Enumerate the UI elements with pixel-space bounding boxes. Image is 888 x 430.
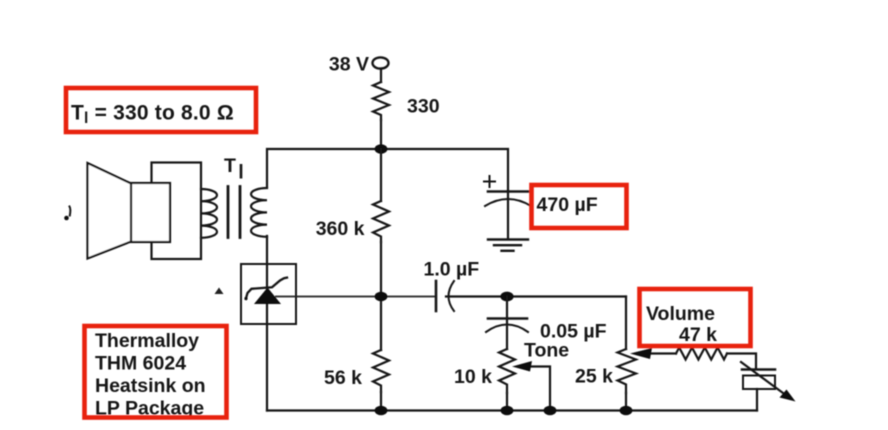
node junction bottom 4 <box>620 406 633 416</box>
wire 25k to bottom <box>625 393 627 411</box>
thyristor device triangle <box>254 288 281 305</box>
svg-text:38 V: 38 V <box>329 54 369 76</box>
svg-text:1.0 µF: 1.0 µF <box>424 259 480 281</box>
svg-text:47 k: 47 k <box>679 324 717 346</box>
wire cartridge to bottom <box>756 389 758 411</box>
svg-text:Tone: Tone <box>524 340 569 362</box>
node anode mark <box>215 288 224 295</box>
callout box red Thermalloy <box>85 326 227 418</box>
wire 56k to bottom rail <box>380 392 382 411</box>
capacitor C1 470uF <box>488 190 528 193</box>
wire mid rail right <box>446 295 626 297</box>
capacitor C1 470uF plus sign <box>484 176 495 187</box>
resistor 360k <box>373 149 389 242</box>
svg-text:Volume: Volume <box>646 303 715 325</box>
speaker driver <box>131 183 170 242</box>
wire left drop (cathode) <box>266 236 268 411</box>
capacitor 1.0uF <box>435 281 438 311</box>
callout box red Volume <box>640 289 751 346</box>
wire tone wiper <box>529 367 550 411</box>
note mark <box>64 216 69 221</box>
node junction top rail <box>375 144 388 154</box>
svg-text:THM 6024: THM 6024 <box>95 353 186 375</box>
potentiometer 10k <box>499 349 515 393</box>
callout box red 470uF <box>532 185 627 228</box>
svg-text:Heatsink on: Heatsink on <box>95 375 206 397</box>
wire mid rail left (gate) <box>276 296 436 298</box>
wire 47k to cartridge <box>727 354 756 370</box>
wire volume wiper <box>649 352 676 354</box>
node junction bottom 1 <box>375 406 388 416</box>
wire junction B down <box>506 297 508 350</box>
wire top rail <box>267 149 508 191</box>
capacitor 0.05uF <box>488 317 527 320</box>
transformer T1 secondary winding <box>251 188 267 237</box>
callout box red T1 <box>66 88 256 132</box>
node 38V supply terminal <box>373 57 389 68</box>
label callout T1 = 330 to 8.0 ohm <box>71 102 234 128</box>
transformer T1 primary winding <box>201 189 217 238</box>
transducer top plate <box>742 368 775 371</box>
volume wiper arrowhead <box>630 348 652 359</box>
svg-text:Tl = 330 to 8.0 Ω: Tl = 330 to 8.0 Ω <box>71 102 234 128</box>
wire pot to bottom <box>506 393 508 411</box>
node junction bottom 2 <box>501 406 514 416</box>
thyristor device gate bar <box>246 278 287 299</box>
resistor 56k <box>373 350 389 392</box>
svg-text:25 k: 25 k <box>575 366 613 388</box>
transformer T1 core <box>228 187 240 238</box>
node junction mid rail B <box>500 292 513 302</box>
speaker frame <box>152 163 202 260</box>
svg-text:470 µF: 470 µF <box>537 194 598 216</box>
wire 360k to mid rail <box>380 242 382 350</box>
transducer arrow <box>741 362 785 395</box>
wire mid rail corner down to 25k <box>625 297 627 350</box>
wire cap to ground <box>507 191 509 239</box>
resistor 330 <box>373 82 389 120</box>
svg-text:360 k: 360 k <box>316 218 365 240</box>
svg-text:Thermalloy: Thermalloy <box>95 330 199 352</box>
wire supply to resistor <box>380 69 382 83</box>
transducer crystal body <box>743 376 775 390</box>
wire resistor to top rail <box>380 120 382 149</box>
node junction mid rail A <box>375 292 388 302</box>
label callout Thermalloy heatsink <box>95 330 206 420</box>
svg-text:10 k: 10 k <box>454 366 492 388</box>
svg-text:56 k: 56 k <box>324 367 362 389</box>
tone wiper arrowhead <box>512 361 532 372</box>
node junction bottom 3 <box>544 406 557 416</box>
speaker cone <box>88 163 132 259</box>
resistor 47k <box>676 348 727 360</box>
thyristor package box <box>241 264 296 324</box>
potentiometer 25k <box>618 349 637 393</box>
ground <box>488 238 528 240</box>
svg-text:330: 330 <box>407 96 440 118</box>
svg-text:T: T <box>224 155 236 177</box>
label T1 transformer <box>224 155 241 179</box>
wire bottom rail <box>267 409 757 411</box>
